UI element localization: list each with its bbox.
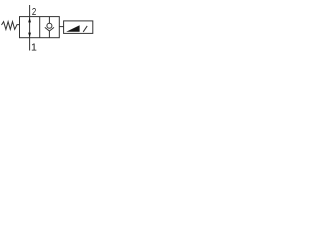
svg-text:2: 2 (32, 6, 37, 18)
svg-text:1: 1 (31, 41, 37, 53)
